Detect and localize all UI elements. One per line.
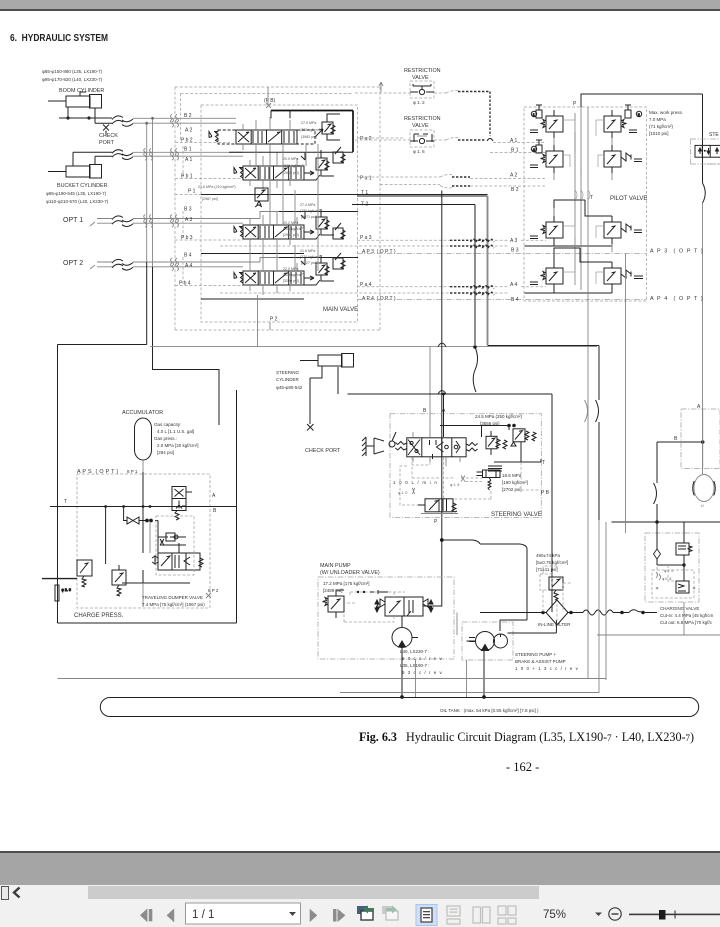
shutoff ball valve bbox=[123, 517, 152, 524]
svg-text:A P 3 ( O P T ): A P 3 ( O P T ) bbox=[650, 249, 704, 255]
wire A3 to main valve bbox=[133, 222, 243, 224]
svg-text:21.6 MPa (210 kgf/cm²): 21.6 MPa (210 kgf/cm²) bbox=[198, 185, 236, 189]
svg-text:[2987 psi]: [2987 psi] bbox=[202, 197, 218, 201]
section heading bbox=[10, 32, 108, 44]
wire A2 to main valve bbox=[133, 122, 236, 124]
pilot wires A1 B1 into pilot valve bbox=[490, 143, 546, 153]
svg-text:B 2: B 2 bbox=[511, 187, 519, 193]
APS charge header bbox=[50, 505, 237, 508]
main pump relief bbox=[323, 590, 345, 618]
svg-text:(P B): (P B) bbox=[264, 98, 276, 104]
valve V1 left spring bbox=[234, 168, 243, 179]
svg-text:A 1: A 1 bbox=[185, 157, 192, 163]
Pa2 pilot wire bbox=[357, 137, 405, 139]
svg-text:6 3 c c / r e v: 6 3 c c / r e v bbox=[402, 670, 443, 675]
wire A4 to main valve bbox=[133, 266, 243, 268]
svg-text:Gas press.:: Gas press.: bbox=[154, 436, 177, 441]
restriction valve 2 label bbox=[404, 116, 441, 129]
svg-text:1 0 0 + 1 3 c c / r e v: 1 0 0 + 1 3 c c / r e v bbox=[515, 666, 579, 671]
figure caption bbox=[359, 730, 694, 745]
next page button bbox=[310, 909, 318, 922]
boom cylinder port wires bbox=[59, 107, 112, 123]
svg-text:T: T bbox=[590, 195, 593, 201]
svg-text:22.0 MPa: 22.0 MPa bbox=[283, 267, 298, 271]
P branch to steering pump bbox=[440, 539, 527, 631]
pilot reducing valve row2 left bbox=[530, 140, 563, 173]
AP3 dark feed bbox=[201, 253, 304, 255]
svg-text:B 3: B 3 bbox=[184, 207, 192, 213]
T2 hose wiggle bbox=[473, 346, 477, 392]
frame gray vertical x625 bbox=[625, 254, 627, 534]
svg-text:P a 2: P a 2 bbox=[360, 136, 372, 142]
svg-text:Cut-in: 4.4 MPa [45 kgf/cm: Cut-in: 4.4 MPa [45 kgf/cm bbox=[660, 613, 714, 618]
svg-text:A 3: A 3 bbox=[185, 217, 192, 223]
wire B1 to main valve bbox=[133, 151, 243, 153]
svg-text:(W/ UNLOADER VALVE): (W/ UNLOADER VALVE) bbox=[320, 570, 380, 576]
svg-text:CHECK: CHECK bbox=[99, 133, 118, 139]
svg-text:P: P bbox=[573, 101, 577, 107]
T1 return dark bbox=[357, 196, 488, 345]
svg-text:RESTRICTION: RESTRICTION bbox=[404, 116, 441, 122]
steering relief valve 2 pilot bbox=[511, 429, 536, 462]
valve V3 left spring bbox=[234, 227, 243, 238]
AP4 dash-dot wire bbox=[357, 299, 646, 301]
svg-text:24.5 MPa (250 kgf/cm²): 24.5 MPa (250 kgf/cm²) bbox=[475, 414, 523, 419]
pilot reducing valve row1 right bbox=[604, 105, 642, 138]
svg-text:20.2 MPa: 20.2 MPa bbox=[283, 221, 298, 225]
svg-text:φ 1. 0: φ 1. 0 bbox=[398, 491, 407, 495]
boom cylinder spec label bbox=[42, 69, 103, 82]
steering pump label bbox=[515, 652, 579, 671]
svg-text:[2702 psi]: [2702 psi] bbox=[502, 487, 522, 492]
V2 pressure note bbox=[300, 121, 321, 139]
svg-text:ACCUMULATOR: ACCUMULATOR bbox=[122, 410, 163, 416]
svg-text:7.0 MPa: 7.0 MPa bbox=[649, 117, 666, 122]
svg-text:A 3: A 3 bbox=[510, 238, 517, 244]
valve V1 bucket spool body bbox=[243, 166, 304, 180]
svg-text:φ 1. 0: φ 1. 0 bbox=[664, 569, 673, 573]
svg-text:CHECK PORT: CHECK PORT bbox=[305, 448, 341, 454]
charging valve body bbox=[676, 522, 692, 555]
P1 relief pressure note bbox=[198, 185, 236, 201]
B2 feed dark line bbox=[271, 111, 353, 153]
steering cylinder piping bbox=[310, 366, 338, 424]
svg-text:B 3: B 3 bbox=[511, 248, 519, 254]
svg-text:φ 1. 5: φ 1. 5 bbox=[450, 483, 459, 487]
check port label bbox=[99, 133, 118, 146]
svg-text:φ110-φ210-570 (L40, LX230-7): φ110-φ210-570 (L40, LX230-7) bbox=[46, 199, 109, 204]
main pump label bbox=[320, 563, 380, 576]
frame gray vertical x606 bbox=[605, 522, 607, 680]
charging valve box bbox=[645, 533, 699, 602]
steering check port X bbox=[307, 424, 314, 431]
charging valve drain bbox=[683, 602, 685, 635]
svg-text:OPT 1: OPT 1 bbox=[63, 217, 83, 224]
B line steering bbox=[429, 347, 431, 437]
crossing chevrons on pilot wires bbox=[471, 239, 495, 295]
svg-text:A 4: A 4 bbox=[510, 282, 517, 288]
top gray bar of viewer bbox=[0, 0, 720, 11]
steering valve port risers bbox=[413, 430, 460, 466]
compensator pressure box bbox=[488, 466, 502, 471]
junction chevron A1 bbox=[487, 139, 493, 142]
main pump pressure note bbox=[323, 581, 370, 593]
page number bbox=[506, 760, 539, 775]
charge line with filter bbox=[480, 610, 657, 615]
svg-text:φ 0. 8: φ 0. 8 bbox=[662, 577, 671, 581]
previous view icon bbox=[357, 906, 374, 921]
svg-text:[190 kgf/cm²]: [190 kgf/cm²] bbox=[502, 480, 528, 485]
B brake line bbox=[612, 441, 720, 524]
valve V1 internals bbox=[245, 167, 301, 179]
svg-text:T 1: T 1 bbox=[361, 190, 368, 196]
pilot reducing valve row4 left bbox=[530, 262, 563, 290]
svg-text:B: B bbox=[674, 436, 678, 442]
svg-text:CHARGE PRESS.: CHARGE PRESS. bbox=[74, 613, 124, 619]
A line steering bbox=[443, 394, 445, 437]
box-edge squiggles on wires bbox=[171, 114, 179, 270]
svg-text:[284 psi]: [284 psi] bbox=[157, 450, 174, 455]
svg-text:7.4 MPa [75 kgf/cm²] (1067 psi: 7.4 MPa [75 kgf/cm²] (1067 psi) bbox=[142, 602, 205, 607]
restriction valve 2 bbox=[410, 130, 434, 147]
svg-text:STEERING VALVE: STEERING VALVE bbox=[491, 512, 542, 518]
svg-text:21.6 MPa: 21.6 MPa bbox=[300, 249, 315, 253]
Pb3 wire bbox=[175, 239, 243, 241]
hose hop marks on T rail bbox=[585, 400, 588, 422]
svg-text:1: 1 bbox=[533, 113, 535, 117]
wire A1 to main valve bbox=[133, 155, 243, 157]
brake booster ellipse bbox=[693, 475, 716, 509]
pilot valve T rail bbox=[587, 107, 589, 301]
valve V3 right pilot arrow bbox=[304, 230, 320, 239]
accumulator bbox=[135, 418, 152, 472]
svg-text:φ 1. 2: φ 1. 2 bbox=[413, 100, 425, 105]
horizontal scrollbar row bbox=[0, 885, 720, 900]
svg-text:[2842 psi]: [2842 psi] bbox=[283, 171, 299, 175]
svg-text:A: A bbox=[212, 493, 216, 499]
valve V2 left spring bbox=[209, 132, 218, 143]
steering relief note bbox=[475, 414, 523, 426]
APS dashed box bbox=[77, 474, 210, 608]
svg-text:φ85-φ150-880 (L35, LX190-7): φ85-φ150-880 (L35, LX190-7) bbox=[42, 69, 103, 74]
two page continuous icon bbox=[498, 906, 516, 924]
hose break marks OPT1 bbox=[112, 216, 133, 227]
orifice 1.0 note bbox=[398, 488, 415, 495]
main pump suction bbox=[401, 648, 404, 699]
svg-text:18.6 MPa: 18.6 MPa bbox=[502, 473, 522, 478]
return line right vertical bbox=[488, 346, 600, 521]
relief valve RVa2 bbox=[322, 114, 340, 140]
valve V4 port stubs bbox=[250, 257, 297, 295]
svg-text:B 1: B 1 bbox=[511, 148, 519, 154]
bottom gray bar bbox=[0, 853, 720, 885]
svg-text:φ 1. 6: φ 1. 6 bbox=[413, 149, 425, 154]
accumulator notes bbox=[154, 422, 199, 455]
last page button bbox=[333, 909, 345, 922]
traveling dumper label bbox=[142, 595, 205, 607]
svg-text:[5±0.75 kgf/cm²]: [5±0.75 kgf/cm²] bbox=[536, 560, 568, 565]
two page view icon bbox=[473, 907, 490, 923]
charge frame right vertical bbox=[236, 390, 238, 623]
main valve inner dashed box bbox=[201, 105, 358, 322]
svg-text:CYLINDER: CYLINDER bbox=[276, 377, 300, 382]
zoom slider track bbox=[629, 914, 720, 916]
svg-text:STEERING PUMP +: STEERING PUMP + bbox=[515, 652, 556, 657]
steering valve spool bbox=[407, 438, 466, 457]
svg-text:A P 3 ( O P T ): A P 3 ( O P T ) bbox=[362, 249, 396, 255]
APS dark drop lines bbox=[106, 472, 190, 583]
pilot reducing valve row1 left bbox=[530, 105, 563, 138]
valve V1 right pilot arrow bbox=[304, 171, 320, 180]
steering valve box bbox=[390, 414, 541, 518]
steering cylinder label bbox=[276, 370, 303, 390]
svg-text:B 4: B 4 bbox=[511, 297, 519, 303]
svg-text:A 1: A 1 bbox=[510, 138, 517, 144]
svg-text:17.2 MPa [175 kgf/cm²]: 17.2 MPa [175 kgf/cm²] bbox=[323, 581, 370, 586]
pilot valve dashed box bbox=[524, 107, 647, 301]
page number dropdown bbox=[186, 903, 301, 924]
svg-text:P B: P B bbox=[541, 490, 550, 496]
wire B2 to main valve bbox=[133, 117, 236, 119]
toolbar bbox=[0, 900, 720, 927]
svg-text:P 2: P 2 bbox=[270, 317, 278, 323]
svg-text:(206 kgf/cm²): (206 kgf/cm²) bbox=[283, 227, 304, 231]
svg-text:A P 4 ( O P T ): A P 4 ( O P T ) bbox=[650, 296, 704, 302]
svg-text:4: 4 bbox=[533, 148, 535, 152]
valve V2 right pilot arrow bbox=[315, 129, 323, 137]
B2 stub riser bbox=[271, 111, 290, 119]
P riser hops bbox=[438, 343, 446, 394]
svg-text:4.0 L [1.1 U.S. gal]: 4.0 L [1.1 U.S. gal] bbox=[157, 429, 194, 434]
steering T collector bbox=[494, 459, 541, 462]
svg-text:B 2: B 2 bbox=[184, 113, 192, 119]
steering compensator note bbox=[502, 473, 528, 492]
restriction valve 1 bbox=[410, 81, 434, 98]
pilot row4 dark wiring bbox=[554, 248, 612, 293]
pilot valve crossover laces bbox=[563, 120, 604, 284]
svg-text:A 4: A 4 bbox=[185, 263, 192, 269]
AP3 dash-dot wire bbox=[357, 253, 646, 255]
APS inner dashed box bbox=[156, 516, 194, 575]
pilot reducing valve row3 right bbox=[604, 216, 642, 244]
svg-text:27.4 MPa: 27.4 MPa bbox=[300, 203, 315, 207]
svg-text:490±74 kPa: 490±74 kPa bbox=[536, 553, 560, 558]
Pb1 wire bbox=[175, 178, 243, 180]
svg-text:Max. work press.: Max. work press. bbox=[649, 110, 683, 115]
steering pump to filter line bbox=[508, 620, 557, 633]
unloader pilot dashes bbox=[344, 592, 405, 622]
V1 pressure note bbox=[283, 157, 304, 175]
A3 pilot wire bbox=[357, 239, 546, 241]
APS check and orifice bbox=[158, 533, 186, 545]
Pb2 wire bbox=[175, 142, 230, 144]
APS gray riser bbox=[143, 523, 150, 608]
steering feed vertical bbox=[702, 94, 704, 474]
tank return header gray bbox=[150, 346, 597, 348]
svg-text:φ95-φ170-920 (L40, LX230-7): φ95-φ170-920 (L40, LX230-7) bbox=[42, 77, 103, 82]
oil tank bbox=[100, 698, 698, 717]
priority valve bbox=[418, 499, 457, 512]
charging valve inlet bbox=[654, 522, 685, 565]
svg-text:B 1: B 1 bbox=[184, 147, 192, 153]
valve V3 spool body bbox=[243, 225, 304, 239]
svg-text:2.0 MPa [20 kgf/cm²]: 2.0 MPa [20 kgf/cm²] bbox=[157, 443, 199, 448]
svg-text:BUCKET CYLINDER: BUCKET CYLINDER bbox=[57, 183, 108, 189]
main pump dash-dot box bbox=[318, 577, 454, 659]
charging low box bbox=[676, 555, 689, 593]
svg-text:(205 kgf/cm²): (205 kgf/cm²) bbox=[283, 164, 304, 168]
steering cylinder bbox=[300, 354, 354, 368]
charging dashed sub-box bbox=[652, 565, 695, 598]
orifice 1.5 bbox=[450, 476, 465, 488]
charge relief valve bbox=[42, 560, 92, 587]
svg-text:[71±11 psi]: [71±11 psi] bbox=[536, 567, 558, 572]
svg-text:[3127 psi]: [3127 psi] bbox=[301, 261, 317, 265]
svg-text:8 P 1: 8 P 1 bbox=[127, 469, 138, 474]
pilot valve P rail bbox=[580, 107, 582, 290]
steering A junction dot bbox=[442, 393, 445, 396]
frame gray horizontal y635 bbox=[597, 634, 720, 636]
svg-text:L35, LX190-7 :: L35, LX190-7 : bbox=[400, 663, 430, 668]
valve V2 boom spool body bbox=[236, 130, 297, 144]
svg-text:[1010 psi]: [1010 psi] bbox=[649, 131, 669, 136]
first page button bbox=[140, 908, 152, 922]
charge orifice left bbox=[55, 585, 71, 601]
svg-text:φ 2. 0: φ 2. 0 bbox=[62, 588, 71, 592]
bucket cylinder bbox=[48, 165, 102, 179]
valve sub-box dashed edges bbox=[180, 93, 352, 285]
svg-text:OPT 2: OPT 2 bbox=[63, 260, 83, 267]
main valve outer dashed box bbox=[175, 87, 380, 330]
A3 feed dark line bbox=[301, 212, 305, 220]
steering pump box bbox=[462, 622, 513, 660]
unloader dark dots bbox=[357, 590, 388, 594]
svg-text:B: B bbox=[213, 508, 217, 514]
priority valve underline bbox=[421, 513, 458, 515]
P1 check valve bbox=[255, 188, 268, 207]
check port X symbol bbox=[103, 125, 109, 136]
steering relief valve 1 bbox=[486, 431, 507, 455]
wire B3 to main valve bbox=[133, 212, 279, 219]
main pump circle bbox=[392, 616, 418, 648]
svg-text:Gas capacity:: Gas capacity: bbox=[154, 422, 181, 427]
steering unit box bbox=[691, 139, 720, 164]
B2 pilot wire bbox=[380, 185, 546, 188]
svg-text:(280 kgf/cm²): (280 kgf/cm²) bbox=[300, 128, 321, 132]
accumulator solenoid valve bbox=[172, 487, 192, 521]
svg-text:A 2: A 2 bbox=[185, 128, 192, 134]
wire B4 to main valve bbox=[133, 258, 279, 263]
right brake dashed box bbox=[681, 409, 720, 469]
charge reducing valve bbox=[112, 565, 126, 596]
V4 pressure note bbox=[283, 249, 321, 283]
svg-text:[3971 psi]: [3971 psi] bbox=[301, 215, 317, 219]
left return frame vertical bbox=[57, 345, 59, 624]
pilot wire A1 heavy dashed bbox=[458, 92, 490, 137]
svg-text:1 / 1: 1 / 1 bbox=[192, 909, 214, 921]
inline filter diamond bbox=[546, 600, 568, 625]
steering pump case drain bbox=[466, 660, 468, 697]
charge frame bottom bbox=[58, 622, 237, 624]
steering spool internals bbox=[408, 440, 460, 460]
hose break marks OPT2 bbox=[112, 259, 133, 270]
pilot reducing valve row4 right bbox=[604, 262, 643, 290]
svg-text:(71 kgf/cm²): (71 kgf/cm²) bbox=[649, 124, 674, 129]
max work press note bbox=[649, 110, 683, 136]
svg-text:U: U bbox=[701, 504, 704, 508]
svg-text:RESTRICTION: RESTRICTION bbox=[404, 68, 441, 74]
valve V2 side dashed sections bbox=[218, 130, 315, 144]
svg-text:A P 4 ( O P T ): A P 4 ( O P T ) bbox=[362, 296, 396, 302]
P1 supply line bbox=[175, 194, 488, 196]
steering valve top dark line bbox=[440, 424, 515, 437]
bucket cylinder spec label bbox=[46, 191, 109, 204]
svg-text:BRAKE & ASSIST PUMP: BRAKE & ASSIST PUMP bbox=[515, 659, 566, 664]
steering spool right spring bbox=[466, 443, 478, 452]
steering lever and pivot bbox=[362, 432, 396, 456]
svg-text:P a 4: P a 4 bbox=[360, 282, 372, 288]
filter bypass relief bbox=[540, 566, 571, 612]
traveling dumper valve spool bbox=[152, 553, 203, 570]
wire hop marks over risers bbox=[144, 148, 153, 227]
svg-text:TRAVELING DUMPER VALVE: TRAVELING DUMPER VALVE bbox=[142, 595, 203, 600]
valve V4 left spring bbox=[234, 273, 243, 284]
valve V1 port stubs bbox=[250, 152, 297, 190]
svg-text:φ95-φ190-645 (L35, LX190-7): φ95-φ190-645 (L35, LX190-7) bbox=[46, 191, 107, 196]
svg-text:BOOM CYLINDER: BOOM CYLINDER bbox=[59, 88, 104, 94]
B4 feed dark line bbox=[279, 257, 358, 259]
svg-text:STE: STE bbox=[709, 132, 719, 138]
T2 return dark bbox=[352, 205, 475, 346]
relief valve RVa4 bbox=[316, 255, 334, 281]
steering valve dashed pilots bbox=[400, 457, 541, 505]
right A feed gray bbox=[702, 409, 704, 469]
pilot reducing valve row2 right bbox=[604, 145, 642, 173]
slider tick bbox=[675, 911, 676, 919]
steering pump circles bbox=[467, 632, 508, 651]
Pa1 to A2 pilot wire bbox=[357, 175, 546, 179]
B4 pilot wire bbox=[220, 284, 612, 293]
A1 feed dark line bbox=[301, 152, 305, 160]
svg-text:VALVE: VALVE bbox=[412, 123, 429, 129]
Pb4 wire bbox=[175, 285, 243, 287]
svg-text:Cut out: 6.8 MPa [70 kgf/c: Cut out: 6.8 MPa [70 kgf/c bbox=[660, 620, 713, 625]
valve V4 internals bbox=[245, 272, 301, 284]
svg-text:T: T bbox=[542, 460, 545, 466]
B3 pilot wire bbox=[220, 238, 612, 246]
svg-text:P 1: P 1 bbox=[188, 189, 196, 195]
svg-text:P a 3: P a 3 bbox=[360, 235, 372, 241]
svg-text:8 P 2: 8 P 2 bbox=[208, 588, 219, 593]
relief valve RVb4 bbox=[333, 253, 345, 269]
boom cylinder bbox=[48, 92, 102, 108]
main pump displacement note bbox=[400, 649, 443, 675]
svg-text:[2931 psi]: [2931 psi] bbox=[283, 233, 299, 237]
A4 feed dark line bbox=[301, 258, 305, 266]
svg-text:(3982 psi): (3982 psi) bbox=[301, 135, 317, 139]
steering unit tank line dashdot bbox=[707, 163, 720, 165]
tank return header dark left bbox=[58, 344, 147, 346]
svg-text:IN-LINE FILTER: IN-LINE FILTER bbox=[538, 622, 571, 627]
svg-text:P: P bbox=[434, 519, 438, 525]
svg-text:STEERING: STEERING bbox=[276, 370, 300, 375]
svg-text:9 0 c c / r e v: 9 0 c c / r e v bbox=[402, 656, 443, 661]
thick bottom line to T bbox=[348, 394, 553, 612]
(PB) port label bbox=[264, 87, 276, 108]
hose hop on return bbox=[596, 400, 599, 422]
svg-text:L40, LX230-7 :: L40, LX230-7 : bbox=[400, 649, 430, 654]
svg-text:MAIN VALVE: MAIN VALVE bbox=[323, 307, 358, 313]
